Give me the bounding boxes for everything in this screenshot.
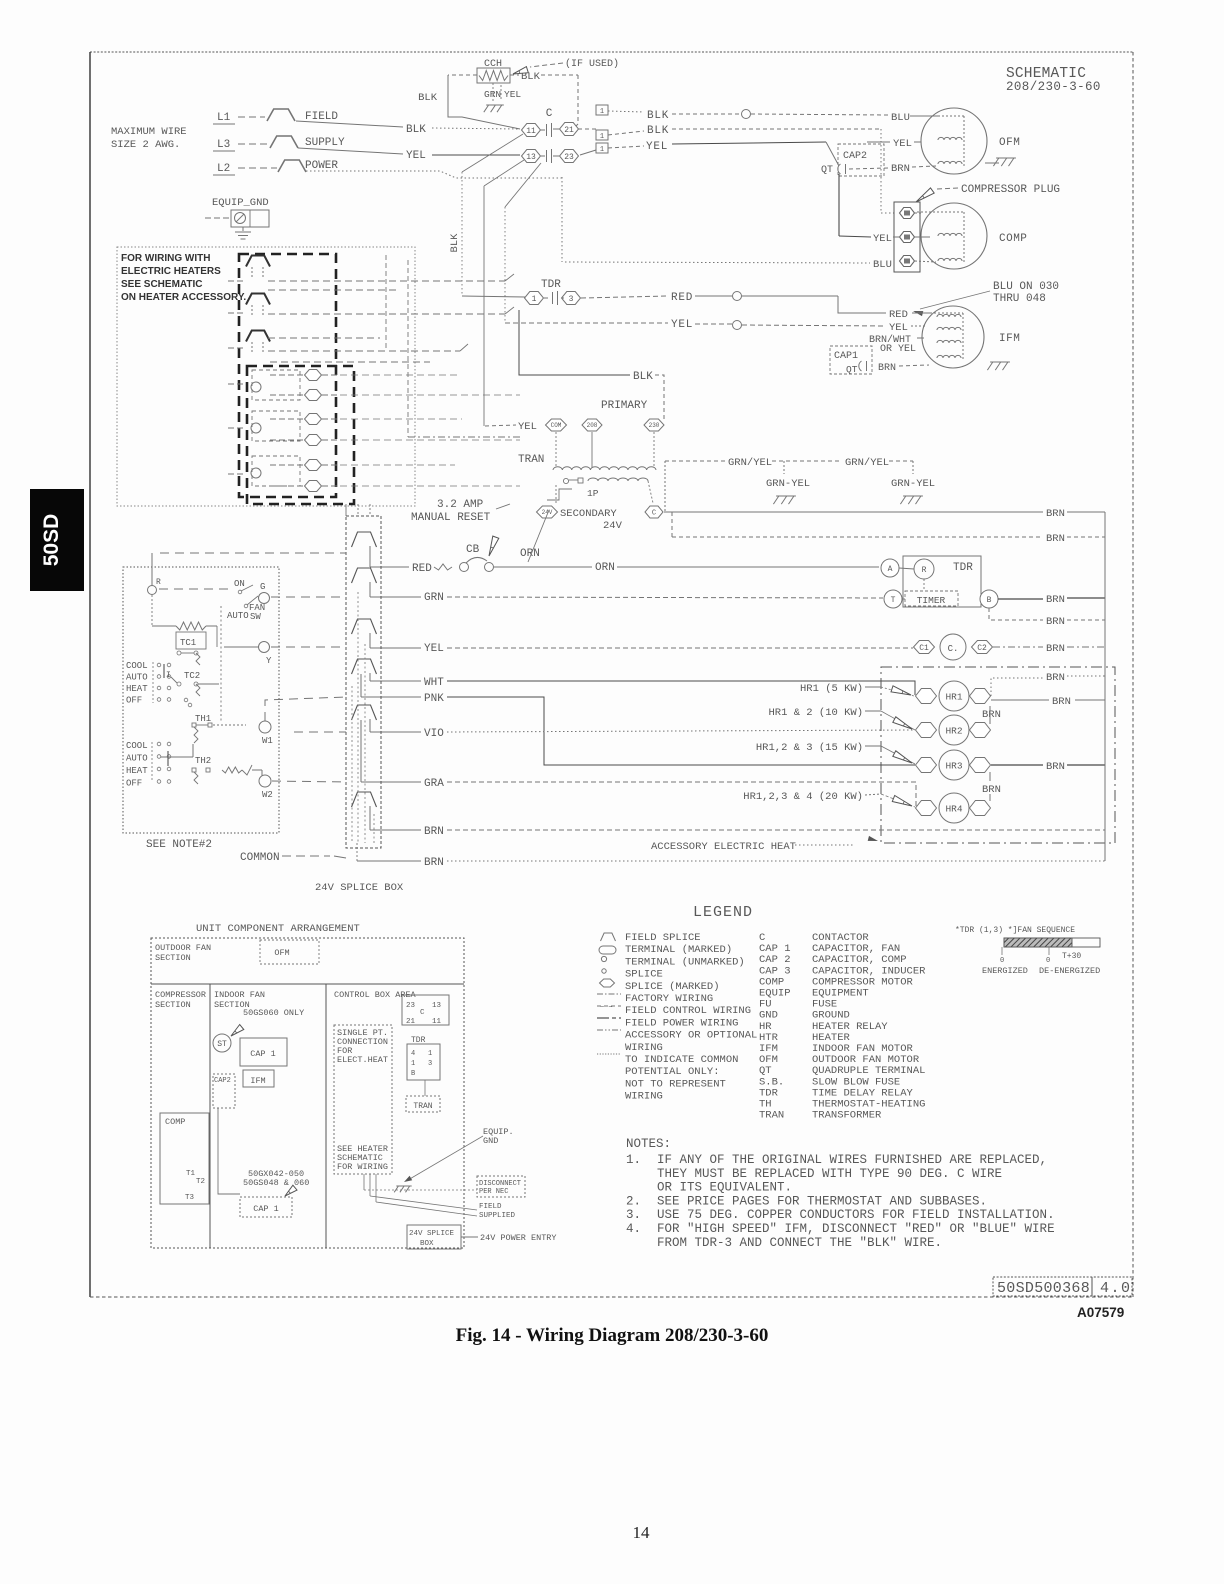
svg-text:HR1,2 & 3 (15 KW): HR1,2 & 3 (15 KW) [756,742,863,754]
svg-text:DE-ENERGIZED: DE-ENERGIZED [1039,966,1100,976]
svg-text:14: 14 [633,1523,651,1542]
svg-text:TRAN: TRAN [413,1102,432,1111]
svg-text:50GS060 ONLY: 50GS060 ONLY [243,1008,304,1018]
svg-text:ON HEATER ACCESSORY.: ON HEATER ACCESSORY. [121,292,246,303]
svg-text:CAP2: CAP2 [214,1077,231,1085]
svg-text:NOTES:: NOTES: [626,1137,671,1151]
svg-text:BOX: BOX [420,1240,434,1248]
svg-text:USE 75 DEG. COPPER CONDUCTORS: USE 75 DEG. COPPER CONDUCTORS FOR FIELD … [657,1208,1055,1222]
svg-text:24V POWER ENTRY: 24V POWER ENTRY [480,1233,557,1243]
svg-text:HEAT: HEAT [126,766,148,776]
svg-text:FIELD SPLICE: FIELD SPLICE [625,932,701,944]
svg-text:TH2: TH2 [195,756,211,766]
svg-text:TRAN: TRAN [759,1110,784,1122]
svg-text:WHT: WHT [424,677,444,689]
svg-text:ACCESSORY OR OPTIONAL: ACCESSORY OR OPTIONAL [625,1030,757,1042]
svg-text:COMP: COMP [999,233,1027,245]
svg-text:CB: CB [466,544,480,556]
svg-text:1P: 1P [587,488,599,499]
svg-text:ENERGIZED: ENERGIZED [982,966,1028,976]
svg-text:1: 1 [411,1060,415,1068]
svg-text:GRN: GRN [484,89,501,100]
svg-text:BLU ON 030: BLU ON 030 [993,281,1059,293]
svg-text:4.: 4. [626,1222,641,1236]
svg-text:YEL: YEL [406,150,426,162]
svg-text:FOR WIRING WITH: FOR WIRING WITH [121,253,210,264]
svg-text:SPLICE (MARKED): SPLICE (MARKED) [625,981,720,993]
svg-text:THRU 048: THRU 048 [993,293,1046,305]
svg-text:HR4: HR4 [945,804,962,815]
svg-text:TH1: TH1 [195,714,211,724]
svg-text:COMMON: COMMON [240,852,280,864]
svg-text:2.: 2. [626,1194,641,1208]
svg-text:BRN: BRN [878,363,896,374]
svg-text:CAP1: CAP1 [834,351,858,362]
svg-text:FOR WIRING: FOR WIRING [337,1162,388,1172]
svg-text:T3: T3 [185,1194,195,1202]
svg-text:CAP 1: CAP 1 [253,1204,279,1214]
svg-text:ST: ST [217,1040,227,1049]
svg-text:BRN: BRN [1046,616,1065,628]
svg-text:ORN: ORN [595,562,615,574]
svg-text:AUTO: AUTO [227,611,249,621]
svg-text:SUPPLY: SUPPLY [305,137,345,149]
svg-text:SPLICE: SPLICE [625,969,663,981]
svg-text:1: 1 [600,146,604,154]
svg-text:BRN: BRN [982,784,1001,796]
svg-text:ACCESSORY ELECTRIC HEAT: ACCESSORY ELECTRIC HEAT [651,841,796,853]
svg-text:24V SPLICE: 24V SPLICE [409,1230,455,1238]
svg-text:11: 11 [432,1018,442,1026]
svg-text:G: G [260,582,265,592]
svg-text:Y: Y [266,656,272,666]
svg-text:COM: COM [551,422,562,429]
svg-text:QT: QT [846,364,858,375]
svg-text:BRN: BRN [1046,761,1065,773]
svg-text:SEE NOTE#2: SEE NOTE#2 [146,839,212,851]
svg-text:24V: 24V [603,520,623,532]
svg-text:HR1: HR1 [945,692,962,703]
svg-text:A: A [888,565,893,574]
svg-text:INDOOR FAN: INDOOR FAN [214,990,265,1000]
svg-text:HEAT: HEAT [126,684,148,694]
svg-text:TDR: TDR [541,279,561,291]
svg-text:HR1 (5 KW): HR1 (5 KW) [800,683,863,695]
svg-text:1: 1 [532,295,537,304]
svg-text:NOT TO REPRESENT: NOT TO REPRESENT [625,1078,726,1090]
svg-text:UNIT COMPONENT ARRANGEMENT: UNIT COMPONENT ARRANGEMENT [196,923,360,935]
svg-text:FACTORY WIRING: FACTORY WIRING [625,993,713,1005]
svg-text:21: 21 [564,126,574,135]
svg-text:4.0: 4.0 [1100,1280,1132,1297]
svg-text:BRN: BRN [1046,643,1065,655]
svg-text:C2: C2 [977,644,987,653]
svg-text:3: 3 [569,295,574,304]
svg-text:YEL: YEL [504,89,521,100]
svg-text:TC2: TC2 [184,671,200,681]
svg-text:WIRING: WIRING [625,1042,663,1054]
svg-text:GRN: GRN [424,592,444,604]
svg-text:R: R [156,578,161,587]
svg-text:IFM: IFM [999,333,1020,345]
svg-text:OR ITS EQUIVALENT.: OR ITS EQUIVALENT. [657,1181,792,1195]
svg-text:50SD500368: 50SD500368 [997,1280,1090,1297]
svg-text:SECONDARY: SECONDARY [560,508,617,520]
svg-text:I: I [166,671,171,680]
svg-text:C: C [546,108,553,120]
svg-text:3.2 AMP: 3.2 AMP [437,499,484,511]
svg-text:POWER: POWER [305,160,338,172]
svg-text:BRN: BRN [424,857,444,869]
svg-text:YEL: YEL [518,421,537,433]
svg-text:TERMINAL (UNMARKED): TERMINAL (UNMARKED) [625,956,745,968]
svg-text:C1: C1 [919,644,929,653]
svg-text:~ ~: ~ ~ [600,1004,613,1012]
svg-text:GRN-YEL: GRN-YEL [766,478,810,490]
svg-text:3.: 3. [626,1208,641,1222]
svg-text:1: 1 [428,1050,432,1058]
svg-text:OFM: OFM [999,137,1020,149]
svg-text:SIZE 2 AWG.: SIZE 2 AWG. [111,139,180,151]
svg-text:COMP: COMP [165,1117,185,1127]
svg-text:(IF USED): (IF USED) [565,58,619,70]
svg-text:ELECT.HEAT: ELECT.HEAT [337,1055,388,1065]
svg-text:PNK: PNK [424,693,444,705]
svg-text:CAP2: CAP2 [843,151,867,162]
svg-text:GND: GND [483,1136,498,1146]
svg-text:OUTDOOR FAN: OUTDOOR FAN [155,943,211,953]
svg-text:BRN: BRN [1046,594,1065,606]
svg-text:SECTION: SECTION [155,1000,191,1010]
svg-text:L3: L3 [217,139,230,151]
svg-text:BLU: BLU [891,112,910,124]
svg-text:VIO: VIO [424,728,444,740]
svg-text:11: 11 [526,127,536,136]
svg-text:SEE SCHEMATIC: SEE SCHEMATIC [121,279,203,290]
svg-text:RED: RED [671,292,693,304]
svg-text:BRN: BRN [982,709,1001,721]
svg-text:FIELD: FIELD [479,1203,502,1211]
svg-text:13: 13 [432,1002,442,1010]
svg-text:4: 4 [411,1050,415,1058]
svg-text:OR YEL: OR YEL [880,344,916,355]
svg-text:FROM TDR-3 AND CONNECT THE "BL: FROM TDR-3 AND CONNECT THE "BLK" WIRE. [657,1236,942,1250]
svg-text:HR1 & 2 (10 KW): HR1 & 2 (10 KW) [768,707,863,719]
svg-text:FIELD: FIELD [305,111,338,123]
svg-text:BRN: BRN [424,826,444,838]
svg-text:TO INDICATE COMMON: TO INDICATE COMMON [625,1054,738,1066]
svg-text:BRN: BRN [1046,533,1065,545]
svg-text:IFM: IFM [250,1076,265,1086]
svg-text:A07579: A07579 [1077,1305,1124,1320]
svg-text:COMPRESSOR PLUG: COMPRESSOR PLUG [961,184,1060,196]
svg-text:50SD: 50SD [40,514,63,567]
svg-text:FOR "HIGH SPEED" IFM, DISCONNE: FOR "HIGH SPEED" IFM, DISCONNECT "RED" O… [657,1222,1055,1236]
svg-text:GRA: GRA [424,778,444,790]
svg-text:13: 13 [526,153,536,162]
svg-text:BLK: BLK [449,233,461,253]
svg-text:BLK: BLK [647,125,669,137]
svg-text:YEL: YEL [889,322,908,334]
svg-text:HR1,2,3 & 4 (20 KW): HR1,2,3 & 4 (20 KW) [743,791,863,803]
svg-text:230: 230 [649,422,660,429]
svg-text:B: B [987,596,992,605]
svg-text:T: T [891,596,896,605]
svg-text:YEL: YEL [646,141,668,153]
svg-text:Fig. 14 - Wiring Diagram 208/2: Fig. 14 - Wiring Diagram 208/230-3-60 [456,1325,769,1346]
svg-text:L2: L2 [217,163,230,175]
svg-text:GRN/YEL: GRN/YEL [728,457,772,469]
svg-text:B: B [411,1070,415,1078]
svg-text:T1: T1 [186,1170,196,1178]
svg-text:ELECTRIC HEATERS: ELECTRIC HEATERS [121,266,221,277]
svg-text:SW: SW [250,612,261,622]
svg-text:QT: QT [821,165,833,176]
svg-text:MAXIMUM WIRE: MAXIMUM WIRE [111,126,187,138]
svg-text:1: 1 [600,108,604,116]
svg-text:C: C [420,1009,425,1017]
svg-text:COOL: COOL [126,741,148,751]
svg-text:TERMINAL (MARKED): TERMINAL (MARKED) [625,944,732,956]
svg-text:THEY MUST BE REPLACED WITH TYP: THEY MUST BE REPLACED WITH TYPE 90 DEG. … [657,1167,1002,1181]
svg-text:BRN: BRN [1046,508,1065,520]
svg-text:YEL: YEL [873,233,892,245]
svg-text:BLK: BLK [633,371,653,383]
svg-text:21: 21 [406,1018,416,1026]
svg-text:OFM: OFM [274,948,289,958]
svg-text:YEL: YEL [893,138,912,150]
svg-text:AUTO: AUTO [126,673,148,683]
svg-text:HR3: HR3 [945,761,962,772]
svg-text:BLK: BLK [406,124,426,136]
svg-text:CAP 1: CAP 1 [250,1049,276,1059]
svg-text:208: 208 [587,422,598,429]
svg-text:24V SPLICE BOX: 24V SPLICE BOX [315,882,404,894]
svg-text:3: 3 [428,1060,432,1068]
svg-text:PRIMARY: PRIMARY [601,400,648,412]
svg-text:BLK: BLK [647,110,669,122]
svg-text:SUPPLIED: SUPPLIED [479,1212,516,1220]
svg-text:IF ANY OF THE ORIGINAL WIRES F: IF ANY OF THE ORIGINAL WIRES FURNISHED A… [657,1153,1047,1167]
svg-text:TC1: TC1 [180,638,196,648]
svg-text:GRN-YEL: GRN-YEL [891,478,935,490]
svg-text:BRN: BRN [1052,696,1071,708]
svg-text:50GS048 & 060: 50GS048 & 060 [243,1178,309,1188]
svg-text:LEGEND: LEGEND [693,904,753,921]
svg-text:T2: T2 [196,1178,205,1186]
svg-text:DISCONNECT: DISCONNECT [479,1180,521,1188]
svg-text:FIELD CONTROL WIRING: FIELD CONTROL WIRING [625,1005,751,1017]
svg-text:OFF: OFF [126,779,142,789]
svg-text:ON: ON [234,579,245,589]
svg-text:RED: RED [412,563,432,575]
svg-text:WIRING: WIRING [625,1091,663,1103]
svg-text:YEL: YEL [671,319,693,331]
svg-text:BRN: BRN [891,163,910,175]
svg-text:COMPRESSOR: COMPRESSOR [155,990,206,1000]
svg-text:SEE PRICE PAGES FOR THERMOSTAT: SEE PRICE PAGES FOR THERMOSTAT AND SUBBA… [657,1194,987,1208]
svg-text:1: 1 [600,133,604,141]
svg-text:23: 23 [564,153,574,162]
svg-text:TRAN: TRAN [518,454,544,466]
svg-text:COOL: COOL [126,661,148,671]
svg-text:RED: RED [889,309,908,321]
svg-text:FIELD POWER WIRING: FIELD POWER WIRING [625,1017,738,1029]
svg-text:W2: W2 [262,790,273,800]
svg-text:L1: L1 [217,112,231,124]
svg-text:C: C [652,510,656,518]
svg-text:TRANSFORMER: TRANSFORMER [812,1110,882,1122]
svg-text:MANUAL RESET: MANUAL RESET [411,512,491,524]
svg-text:T+30: T+30 [1062,952,1081,961]
svg-text:EQUIP_GND: EQUIP_GND [212,197,269,209]
svg-text:W1: W1 [262,736,273,746]
svg-text:23: 23 [406,1002,416,1010]
svg-text:BLK: BLK [418,92,438,104]
svg-text:PER NEC: PER NEC [479,1188,508,1196]
svg-text:0: 0 [1000,957,1004,965]
svg-text:0: 0 [1046,957,1050,965]
svg-text:*TDR (1,3) *]FAN SEQUENCE: *TDR (1,3) *]FAN SEQUENCE [955,926,1075,935]
svg-text:GRN/YEL: GRN/YEL [845,457,889,469]
svg-text:R: R [922,566,927,575]
svg-text:1.: 1. [626,1153,641,1167]
svg-text:AUTO: AUTO [126,754,148,764]
svg-text:POTENTIAL ONLY:: POTENTIAL ONLY: [625,1066,720,1078]
svg-text:OFF: OFF [126,696,142,706]
svg-text:C.: C. [948,644,959,654]
svg-text:SECTION: SECTION [155,953,191,963]
svg-text:HR2: HR2 [945,726,962,737]
svg-text:TDR: TDR [953,562,973,574]
svg-text:TIMER: TIMER [917,595,946,606]
svg-text:BLU: BLU [873,259,892,271]
svg-text:208/230-3-60: 208/230-3-60 [1006,80,1101,94]
svg-text:BRN: BRN [1046,672,1065,684]
svg-text:YEL: YEL [424,643,444,655]
